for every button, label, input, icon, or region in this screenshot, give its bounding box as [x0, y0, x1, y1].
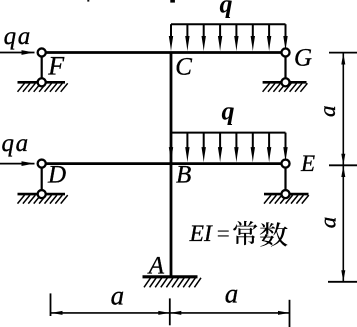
distributed load arrow: [268, 133, 270, 151]
support F: ground line: [18, 81, 66, 84]
distributed load arrow: [170, 24, 172, 39]
support E: upper hinge circle: [281, 160, 289, 168]
svg-text:E: E: [300, 151, 315, 176]
distributed load arrow: [219, 133, 221, 151]
bottom dimension arrowhead left: [51, 311, 63, 315]
svg-text:=: =: [217, 221, 230, 247]
stray speck top edge: [87, 0, 89, 2]
distributed load q on BE: top line: [171, 132, 286, 134]
right dimension: line E-base: [342, 166, 344, 282]
distributed load arrow: [252, 24, 254, 39]
distributed load arrow: [186, 24, 188, 39]
distributed load arrow: [252, 133, 254, 151]
force qa at D: shaft: [0, 163, 35, 165]
support E: lower hinge circle: [281, 190, 289, 198]
support E: ground line: [264, 193, 309, 196]
distributed load arrow: [203, 133, 205, 151]
label 数 (shu) glyph path: [260, 222, 288, 246]
bottom dimension: right tick: [289, 300, 291, 327]
right dimension arrowhead down at E: [341, 154, 345, 165]
support F: link bar: [41, 53, 43, 83]
svg-text:C: C: [175, 54, 192, 81]
svg-text:qa: qa: [2, 130, 30, 157]
svg-text:D: D: [47, 161, 66, 188]
distributed load arrow: [203, 24, 205, 39]
support D: hatching: [18, 195, 68, 204]
svg-text:a: a: [315, 217, 340, 229]
support E: link bar: [284, 164, 286, 195]
svg-text:A: A: [147, 252, 165, 279]
support G: ground line: [263, 81, 307, 84]
support D: upper hinge circle: [38, 160, 46, 168]
svg-text:qa: qa: [4, 23, 32, 50]
svg-text:a: a: [225, 279, 239, 309]
distributed load arrow: [285, 24, 287, 39]
force qa at F: shaft: [0, 52, 35, 54]
support G: link bar: [284, 53, 286, 83]
support E: hatching: [264, 195, 309, 204]
support F: hatching: [18, 83, 68, 92]
support G: lower hinge circle: [281, 78, 289, 86]
support D: ground line: [18, 193, 66, 196]
distributed load q on CG: top line: [171, 23, 286, 25]
right dimension arrowhead down at base: [341, 270, 345, 281]
distributed load arrow: [219, 24, 221, 39]
force qa at D: arrowhead: [22, 161, 35, 166]
svg-text:q: q: [220, 0, 233, 18]
distributed load arrow: [186, 133, 188, 151]
beam F-C-G: [42, 51, 286, 54]
stray crop mark top edge: [170, 0, 175, 3]
fixed support at A: hatching: [144, 278, 201, 288]
svg-text:B: B: [176, 161, 191, 188]
svg-text:q: q: [222, 97, 235, 126]
right dimension: tick at base level: [328, 281, 357, 283]
support F: upper hinge circle: [38, 48, 46, 56]
right dimension: tick at E level: [329, 164, 357, 166]
distributed load arrow: [235, 24, 237, 39]
distributed load arrow: [285, 133, 287, 151]
bottom dimension arrowheads at centre: [158, 311, 169, 315]
right dimension: tick at G level: [329, 52, 357, 54]
svg-text:a: a: [315, 106, 340, 118]
distributed load arrow: [170, 133, 172, 151]
beam D-B-E: [42, 162, 286, 165]
support F: lower hinge circle: [38, 78, 46, 86]
svg-text:a: a: [111, 280, 125, 310]
right dimension arrowhead up below E: [341, 166, 345, 177]
label 常 (chang) glyph path: [233, 221, 257, 245]
distributed load arrow: [268, 24, 270, 39]
bottom dimension line: [51, 312, 289, 314]
support D: lower hinge circle: [38, 190, 46, 198]
support D: link bar: [41, 164, 43, 195]
distributed load arrow: [235, 133, 237, 151]
force qa at F: arrowhead: [22, 50, 35, 55]
right dimension arrowhead up at G: [341, 53, 345, 65]
column C-B-A: [170, 53, 173, 277]
svg-text:G: G: [294, 45, 312, 72]
bottom dimension: centre tick: [169, 298, 171, 325]
support G: hatching: [263, 83, 308, 92]
support G: upper hinge circle: [281, 48, 289, 56]
bottom dimension arrowhead right: [278, 311, 289, 315]
svg-text:F: F: [47, 52, 65, 81]
right dimension: line G-E: [342, 53, 344, 165]
fixed support at A: ground line: [143, 275, 198, 278]
bottom dimension: left tick: [50, 293, 52, 316]
svg-text:EI: EI: [189, 221, 213, 247]
